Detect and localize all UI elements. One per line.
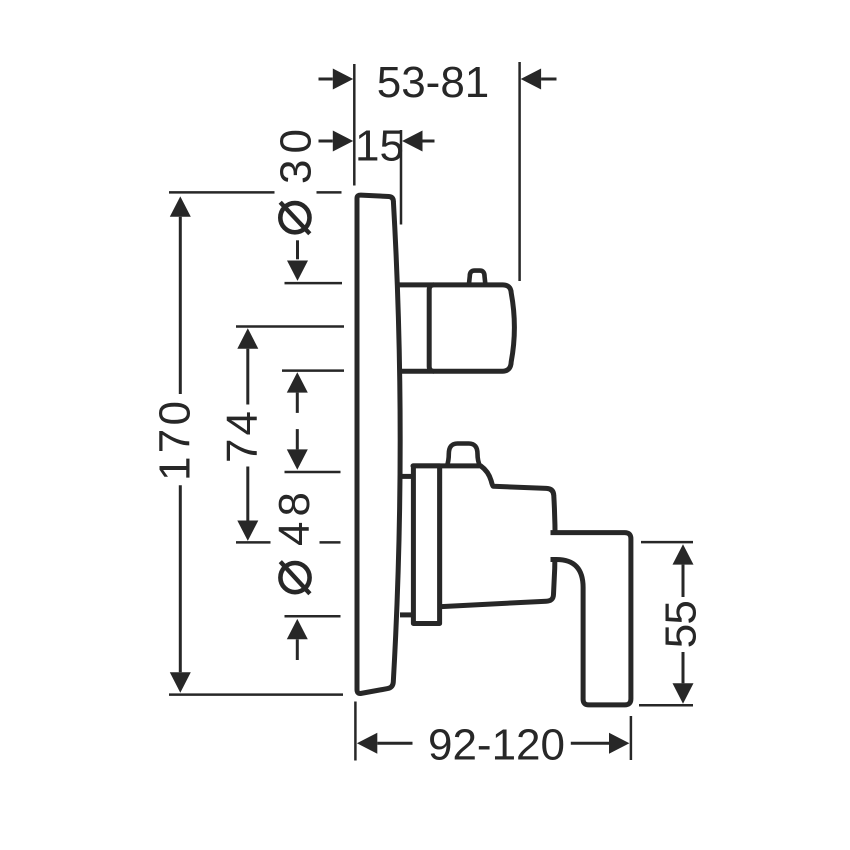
svg-text:30: 30 (271, 129, 320, 184)
label diam 48 symbol slash (280, 562, 310, 594)
dimension diam48 upper arrow (296, 429, 299, 449)
svg-text:55: 55 (657, 600, 706, 648)
svg-text:15: 15 (355, 122, 404, 171)
dimension 92-120 right arrow (571, 742, 609, 745)
dimension 170 upper arrow (179, 217, 182, 394)
extension line 53-81 right (518, 62, 521, 281)
thermostat handle body U1 (429, 285, 514, 371)
dimension diam30 lower arrow (296, 393, 299, 413)
extension line thermostat axis (236, 325, 344, 328)
extension line valve axis (236, 541, 341, 544)
thermostat handle neck top line (397, 282, 435, 287)
extension line 53-81 left (353, 64, 356, 186)
dimension 74 lower arrow (246, 467, 249, 521)
extension line 55 bottom (639, 704, 693, 707)
extension line 92-120 right (630, 716, 633, 760)
label diam 48 symbol circle (280, 563, 309, 592)
shut-off valve body (413, 466, 555, 607)
extension line valve bottom (diam 48) (285, 615, 341, 618)
label diam 30 symbol slash (280, 202, 310, 234)
extension line 55 top (641, 541, 693, 544)
dimension 55 lower arrow (682, 652, 685, 683)
dimension 15 right arrow (423, 140, 435, 143)
dimension 53-81 left arrow (319, 78, 333, 81)
dimension diam48 lower arrow (296, 639, 299, 660)
extension line knob bottom (diam 30) (282, 369, 344, 372)
lever handle (551, 533, 631, 705)
valve sleeve bottom line (400, 612, 413, 617)
valve top button (447, 444, 480, 467)
dimension diam30 upper arrow (296, 240, 299, 259)
dimension 55 upper arrow (682, 565, 685, 597)
svg-text:92-120: 92-120 (428, 721, 565, 770)
dimension 53-81 right arrow (541, 78, 556, 81)
label diam 30 symbol circle (280, 203, 309, 232)
svg-text:74: 74 (218, 411, 267, 463)
extension line 92-120 left (354, 702, 357, 761)
thermostat handle neck bottom line (400, 369, 434, 374)
svg-text:170: 170 (150, 401, 199, 481)
svg-text:53-81: 53-81 (377, 58, 490, 107)
extension line plate top (170 / dim datum) (169, 191, 342, 194)
svg-text:48: 48 (270, 492, 319, 546)
extension line plate bottom (169, 693, 343, 696)
dimension 92-120 left arrow (377, 742, 412, 745)
escutcheon plate (side view) (357, 195, 400, 693)
dimension 74 upper arrow (246, 349, 249, 405)
valve sleeve top line (400, 474, 414, 479)
extension line valve top (diam 48) (285, 471, 341, 474)
extension line knob top (diam 30) (285, 282, 343, 285)
dimension 15 left arrow (319, 140, 333, 143)
dimension 170 lower arrow (179, 485, 182, 672)
valve flange (413, 466, 439, 624)
extension line 15 right (400, 130, 403, 225)
thermostat handle top button (469, 271, 486, 285)
